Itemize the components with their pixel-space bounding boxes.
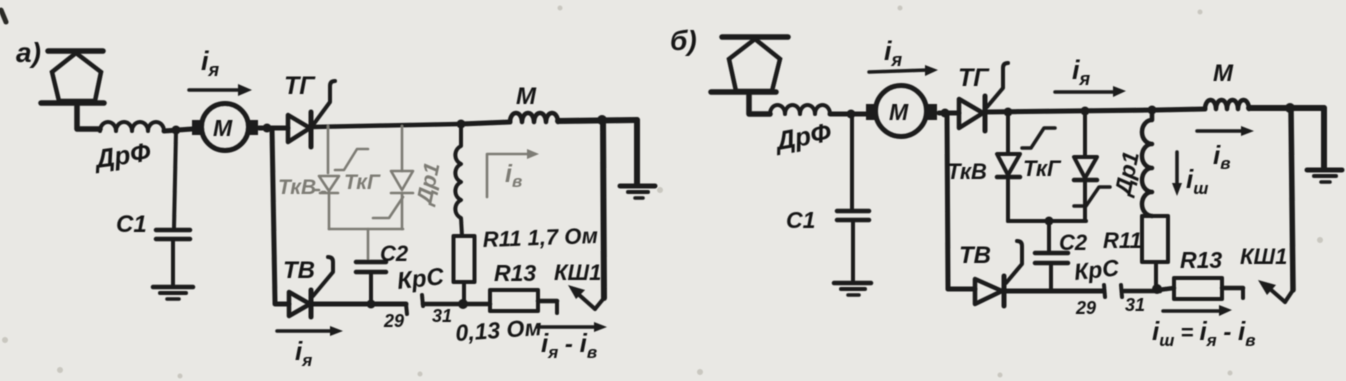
svg-text:iш: iш	[1186, 164, 1208, 198]
motor M (armature)	[192, 104, 258, 151]
svg-text:КрС: КрС	[396, 263, 446, 295]
bottom rail TV to contact KrS	[312, 302, 406, 307]
node C2-rail junction	[367, 300, 376, 309]
svg-text:31: 31	[1125, 295, 1145, 315]
svg-text:iя: iя	[884, 36, 903, 70]
svg-text:iя - iв: iя - iв	[541, 328, 597, 362]
right vertical wire b	[1291, 108, 1293, 290]
svg-text:iя: iя	[295, 336, 312, 370]
wire motor to TG	[259, 126, 288, 131]
svg-text:R11 1,7 Ом: R11 1,7 Ом	[482, 223, 598, 252]
svg-text:КШ1: КШ1	[554, 260, 601, 285]
svg-text:iя: iя	[201, 46, 220, 80]
ground (right of a)	[620, 186, 655, 198]
node A junction	[172, 126, 181, 135]
node A junction b	[847, 110, 856, 119]
capacitor C2 b	[1035, 253, 1068, 289]
motor field winding M	[510, 113, 558, 122]
node TkV junction	[1004, 108, 1013, 117]
wire Dr1 node to M winding b	[1157, 109, 1205, 110]
wire tick to R13	[423, 302, 490, 307]
svg-text:ТкВ: ТкВ	[278, 176, 316, 199]
pantograph (current collector)	[41, 51, 104, 129]
inductor DrF b	[770, 105, 830, 114]
svg-text:б): б)	[670, 25, 697, 56]
svg-text:iя: iя	[1072, 55, 1091, 89]
wire node C to M winding	[461, 122, 510, 124]
svg-text:ТГ: ТГ	[958, 64, 990, 92]
thyristor TkG	[1074, 111, 1110, 221]
svg-text:ТВ: ТВ	[283, 257, 315, 284]
resistor R11 b	[1142, 216, 1168, 289]
svg-text:R13: R13	[1180, 247, 1222, 273]
right vertical wire node D to KSh1	[603, 120, 604, 298]
svg-text:ТкГ: ТкГ	[1023, 156, 1062, 181]
svg-text:М: М	[213, 115, 233, 141]
wire coil to motor	[164, 129, 192, 131]
current arrow i_ya - i_v (bottom right)	[537, 322, 607, 332]
ground (right of b)	[1307, 170, 1342, 182]
motor M b	[866, 86, 937, 137]
contactor KSh1 b	[1258, 280, 1293, 302]
svg-text:29: 29	[383, 311, 404, 331]
svg-text:iв: iв	[1213, 140, 1231, 173]
inductor Dr1 b	[1142, 110, 1152, 216]
svg-text:29: 29	[1075, 298, 1096, 318]
wire tick to node b	[1122, 289, 1160, 294]
thyristor TV b	[948, 241, 1022, 306]
current arrow i_ya (top left)	[189, 84, 252, 96]
svg-text:М: М	[516, 83, 537, 110]
svg-text:ТГ: ТГ	[284, 72, 316, 100]
svg-text:ТВ: ТВ	[959, 242, 991, 269]
current arrow i_v b	[1197, 126, 1254, 136]
svg-text:ДрФ: ДрФ	[92, 136, 153, 174]
svg-text:С1: С1	[786, 207, 815, 233]
resistor R11	[454, 236, 475, 303]
svg-text:М: М	[1213, 60, 1234, 87]
capacitor C2	[356, 262, 386, 303]
capacitor C1 branch	[156, 131, 190, 285]
faint commutation group (TkV TkG box)	[319, 126, 413, 260]
capacitor C1 branch b	[837, 114, 869, 281]
node B junction b	[941, 109, 950, 118]
svg-text:С1: С1	[116, 211, 147, 238]
node C junction (Dr1 top)	[457, 120, 466, 129]
left vertical wire b	[947, 113, 948, 289]
node R11 bottom junction b	[1152, 284, 1162, 294]
svg-text:iв: iв	[505, 160, 522, 191]
svg-text:Др1: Др1	[411, 160, 445, 208]
current arrow i_ya b (before motor)	[869, 65, 938, 76]
wire coil to motor b	[830, 112, 866, 117]
scan mark top-left edge	[1, 10, 6, 22]
left vertical wire node B to TV	[272, 128, 275, 302]
main rail TG to Dr1	[985, 110, 1157, 112]
current arrow i_sh result b	[1163, 305, 1232, 316]
motor field winding M b	[1205, 100, 1249, 109]
svg-text:Др1: Др1	[1109, 149, 1144, 199]
svg-text:iш = iя - iв: iш = iя - iв	[1152, 316, 1256, 350]
current arrow i_ya b2	[1055, 86, 1126, 97]
svg-text:R13: R13	[494, 260, 536, 286]
node R11-rail junction	[458, 299, 468, 309]
node D junction	[597, 115, 607, 125]
resistor R13 b	[1158, 278, 1243, 299]
current arrow i_ya (bottom left)	[277, 326, 343, 336]
current bracket i_v (faint)	[487, 149, 539, 197]
svg-text:ДрФ: ДрФ	[772, 117, 834, 157]
svg-text:ТкГ: ТкГ	[344, 171, 381, 194]
current arrow i_sh b	[1172, 152, 1182, 196]
wire winding to node D	[558, 120, 637, 121]
thyristor TG	[288, 81, 335, 147]
wire corner down to ground	[634, 120, 640, 184]
thyristor TG b	[959, 63, 1008, 131]
wire TG to node C	[311, 124, 461, 127]
bottom rail b	[1005, 289, 1104, 294]
svg-text:КрС: КрС	[1073, 254, 1121, 285]
svg-text:КШ1: КШ1	[1240, 244, 1287, 269]
svg-text:С2: С2	[1059, 230, 1088, 255]
wire winding to right corner b	[1249, 105, 1324, 111]
svg-text:С2: С2	[380, 241, 409, 266]
wire corner down to ground b	[1321, 108, 1327, 168]
pantograph b	[711, 37, 788, 114]
node box bottom junction	[1045, 217, 1054, 226]
thyristor TV	[289, 257, 333, 317]
contact KrS tick 29	[406, 304, 407, 314]
svg-text:31: 31	[432, 306, 452, 326]
ground (C1 b)	[834, 283, 871, 295]
node TkG junction	[1081, 107, 1090, 116]
svg-text:а): а)	[16, 37, 41, 68]
wire box bottom	[1008, 219, 1086, 223]
node right junction b	[1285, 103, 1295, 113]
contact KrS tick 31	[422, 295, 423, 306]
inductor DrF (smoothing reactor)	[100, 122, 164, 131]
inductor Dr1	[455, 124, 462, 236]
wire corner to TV	[275, 302, 289, 304]
ground (C1)	[153, 287, 193, 299]
node Dr1 junction	[1148, 106, 1157, 115]
wire motor to TG b	[939, 111, 959, 116]
svg-text:0,13 Ом: 0,13 Ом	[455, 314, 543, 346]
contact KrS tick 29 b	[1104, 285, 1105, 297]
contactor KSh1	[568, 285, 604, 309]
node B junction	[263, 124, 272, 133]
wire to C2 b	[1047, 221, 1051, 251]
svg-text:М: М	[889, 99, 909, 125]
contact KrS tick 31 b	[1121, 285, 1122, 297]
resistor R13	[490, 290, 557, 313]
thyristor TkV	[997, 112, 1055, 221]
svg-text:R11: R11	[1103, 228, 1142, 253]
svg-text:ТкВ: ТкВ	[947, 159, 987, 184]
